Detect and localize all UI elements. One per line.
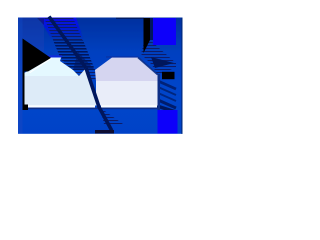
black strip top (144, 18, 151, 53)
right band step line 5 (157, 106, 176, 112)
right box top (lavender) (95, 58, 158, 82)
right band step line 2 (158, 87, 176, 95)
navy triangle right band mid (151, 57, 174, 68)
denser hatch lower band (53, 40, 95, 70)
bright blue block top-right (153, 18, 176, 45)
black block right band (162, 72, 175, 79)
white edge along wedge (30, 58, 52, 73)
floor stripes triangle (100, 108, 123, 125)
navy edge along right box slope (138, 58, 158, 75)
navy line under boxes (28, 108, 158, 110)
wall and floor backdrop (18, 18, 183, 134)
gap shadow line between boxes (86, 68, 112, 131)
diagonal navy line upper (49, 17, 86, 69)
black dash bottom (95, 130, 114, 134)
black bottom corner (23, 105, 29, 111)
right band step line 3 (158, 93, 176, 101)
left box front (23, 68, 100, 106)
bright underlay left band (39, 18, 86, 47)
navy strip beside black (150, 18, 153, 40)
right hatched band (141, 40, 176, 76)
lighter left corner overlay (18, 18, 44, 58)
black thin strip (23, 72, 25, 108)
top navy edge line (116, 18, 144, 20)
small navy triangle top-left area (37, 18, 44, 25)
bright streak above left box rear edge (47, 55, 62, 57)
right box right edge (158, 74, 161, 110)
left box top (24, 58, 79, 77)
left hatched band (44, 18, 96, 82)
lighter left bar overlay (18, 18, 23, 134)
bright blue block bottom-right (158, 110, 178, 134)
right box front (96, 81, 158, 106)
right band step line 4 (158, 100, 176, 108)
white highlight line left (28, 105, 95, 107)
rear edge shade right box (106, 56, 138, 57)
darker triangle in left band (73, 52, 95, 70)
right edge navy line (181, 18, 182, 134)
right band step line 1 (158, 81, 176, 89)
black wedge (23, 39, 52, 72)
white highlight line right (101, 105, 157, 107)
